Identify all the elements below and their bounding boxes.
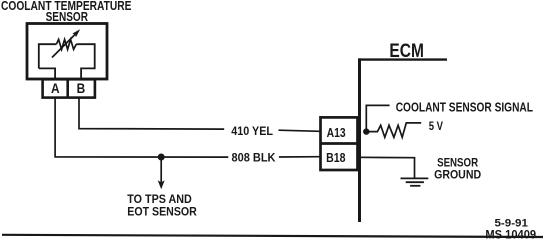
junction node on 808 BLK wire [158,154,165,161]
svg-text:EOT SENSOR: EOT SENSOR [127,204,197,218]
wire: 808 BLK into B18 [279,156,320,158]
sensor inner housing outline [39,44,95,78]
svg-text:5 V: 5 V [429,121,444,133]
coolant sensor signal callout line [366,105,389,131]
svg-text:COOLANT SENSOR SIGNAL: COOLANT SENSOR SIGNAL [396,100,533,115]
ECM connector block A13/B18 [321,117,358,170]
svg-text:808 BLK: 808 BLK [232,153,277,165]
label: COOLANT TEMPERATURE SENSOR title [1,0,132,24]
wire: terminal A down and right (808 circuit) [55,98,228,158]
bottom separator rule [2,235,543,237]
ECM boundary horizontal line [358,58,447,60]
junction node at A13 output [363,128,369,134]
svg-text:GROUND: GROUND [434,167,481,181]
coolant temperature sensor outer housing [27,24,107,80]
svg-text:410 YEL: 410 YEL [231,126,273,138]
pull-up resistor to 5V [369,123,421,137]
wire: terminal B down and right (410 circuit) [79,98,224,130]
thermistor variable arrow [52,29,80,57]
label SENSOR GROUND [434,156,481,182]
ECM boundary vertical line [358,58,361,222]
thermistor RT zigzag element [56,39,76,49]
svg-text:A: A [51,80,60,96]
connector terminal block [43,79,95,97]
wire: 410 YEL into A13 [279,130,321,131]
arrow to TPS and EOT sensor [158,157,165,189]
wire: B18 to sensor ground [358,157,415,178]
svg-text:A13: A13 [327,126,346,140]
svg-text:B: B [77,80,86,96]
svg-text:B18: B18 [326,151,345,165]
ground symbol [401,178,429,185]
label TO TPS AND EOT SENSOR [127,192,197,219]
